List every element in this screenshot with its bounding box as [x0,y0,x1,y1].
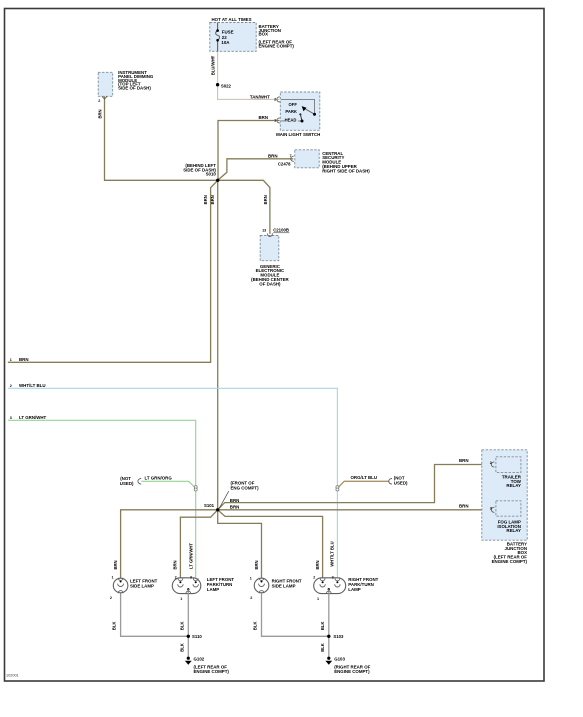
svg-text:PARK: PARK [285,109,297,114]
svg-text:BRN: BRN [459,458,469,463]
svg-text:BLK: BLK [320,643,325,652]
svg-text:TAN/WHT: TAN/WHT [250,94,270,99]
svg-text:BRN: BRN [173,560,178,569]
svg-text:S103: S103 [333,634,344,639]
svg-text:BRN: BRN [230,505,240,510]
svg-text:2: 2 [490,461,492,465]
svg-text:BRN: BRN [268,153,278,158]
svg-text:S010: S010 [206,172,217,177]
svg-text:2: 2 [110,596,112,600]
svg-text:SIDE LAMP: SIDE LAMP [130,583,154,588]
svg-text:LT GRN/WHT: LT GRN/WHT [188,543,193,569]
svg-text:LAMP: LAMP [348,587,361,592]
svg-text:1: 1 [112,575,114,579]
svg-text:BRN: BRN [263,195,268,204]
svg-text:2: 2 [250,596,252,600]
svg-text:SIDE OF DASH): SIDE OF DASH) [118,86,151,91]
svg-text:S101: S101 [204,503,215,508]
svg-text:1: 1 [180,597,182,601]
svg-text:102001: 102001 [6,674,19,678]
svg-text:SIDE LAMP: SIDE LAMP [272,583,296,588]
svg-text:ENGINE COMPT): ENGINE COMPT) [334,669,370,674]
svg-text:BLK: BLK [112,621,117,630]
svg-text:G102: G102 [194,657,205,662]
svg-text:ORG/LT BLU: ORG/LT BLU [351,475,378,480]
svg-text:LT GRN/WHT: LT GRN/WHT [19,415,47,420]
svg-text:BRN: BRN [230,498,240,503]
svg-text:HOT AT ALL TIMES: HOT AT ALL TIMES [212,17,252,22]
svg-text:LAMP: LAMP [207,587,220,592]
svg-text:HEAD: HEAD [285,118,297,123]
svg-text:BRN: BRN [258,115,268,120]
svg-text:3: 3 [10,416,12,420]
svg-text:10A: 10A [221,40,230,45]
svg-text:BLU/WHT: BLU/WHT [210,55,215,75]
svg-text:MAIN LIGHT SWITCH: MAIN LIGHT SWITCH [276,132,320,137]
svg-text:USED): USED) [120,481,134,486]
svg-text:2: 2 [274,98,276,102]
svg-text:LT GRN/ORG: LT GRN/ORG [145,475,173,480]
svg-text:2: 2 [98,99,100,103]
svg-text:C2100B: C2100B [273,228,289,233]
svg-text:OFF: OFF [289,102,298,107]
svg-text:BLK: BLK [252,621,257,630]
svg-text:3: 3 [490,506,492,510]
svg-text:ENG COMPT): ENG COMPT) [231,485,260,490]
svg-text:1: 1 [250,576,252,580]
svg-text:S110: S110 [192,634,202,639]
svg-text:OF DASH): OF DASH) [259,281,281,286]
svg-text:BRN: BRN [210,195,215,204]
svg-text:13: 13 [262,229,266,233]
svg-text:1: 1 [274,119,276,123]
svg-text:BRN: BRN [97,109,102,118]
svg-text:2: 2 [10,384,12,388]
svg-text:ENGINE COMPT): ENGINE COMPT) [492,559,528,564]
svg-text:WHT/LT BLU: WHT/LT BLU [330,541,335,566]
svg-text:2: 2 [313,575,315,579]
svg-text:7: 7 [290,154,292,158]
svg-text:ENGINE COMPT): ENGINE COMPT) [194,669,230,674]
svg-text:RELAY: RELAY [506,483,521,488]
svg-text:BRN: BRN [113,560,118,569]
svg-text:ENGINE COMPT): ENGINE COMPT) [259,43,295,48]
svg-text:C2478: C2478 [278,162,291,167]
svg-text:FUSE: FUSE [222,30,234,35]
svg-text:USED): USED) [394,481,408,486]
svg-text:S022: S022 [221,83,232,88]
svg-text:2: 2 [175,575,177,579]
svg-text:BLK: BLK [180,643,185,652]
svg-text:3: 3 [190,575,192,579]
svg-text:BRN: BRN [459,504,469,509]
svg-text:WHT/LT BLU: WHT/LT BLU [19,383,46,388]
svg-text:1: 1 [10,358,12,362]
svg-text:RIGHT SIDE OF DASH): RIGHT SIDE OF DASH) [322,168,370,173]
svg-text:RELAY: RELAY [506,528,521,533]
svg-text:BRN: BRN [315,560,320,569]
svg-text:BLK: BLK [180,621,185,630]
svg-text:G103: G103 [334,657,345,662]
svg-text:BRN: BRN [19,357,29,362]
svg-text:BOX: BOX [259,32,269,37]
svg-text:BRN: BRN [254,560,259,569]
svg-text:1: 1 [317,597,319,601]
svg-text:BLK: BLK [320,621,325,630]
svg-text:BRN: BRN [203,195,208,204]
svg-text:3: 3 [332,575,334,579]
